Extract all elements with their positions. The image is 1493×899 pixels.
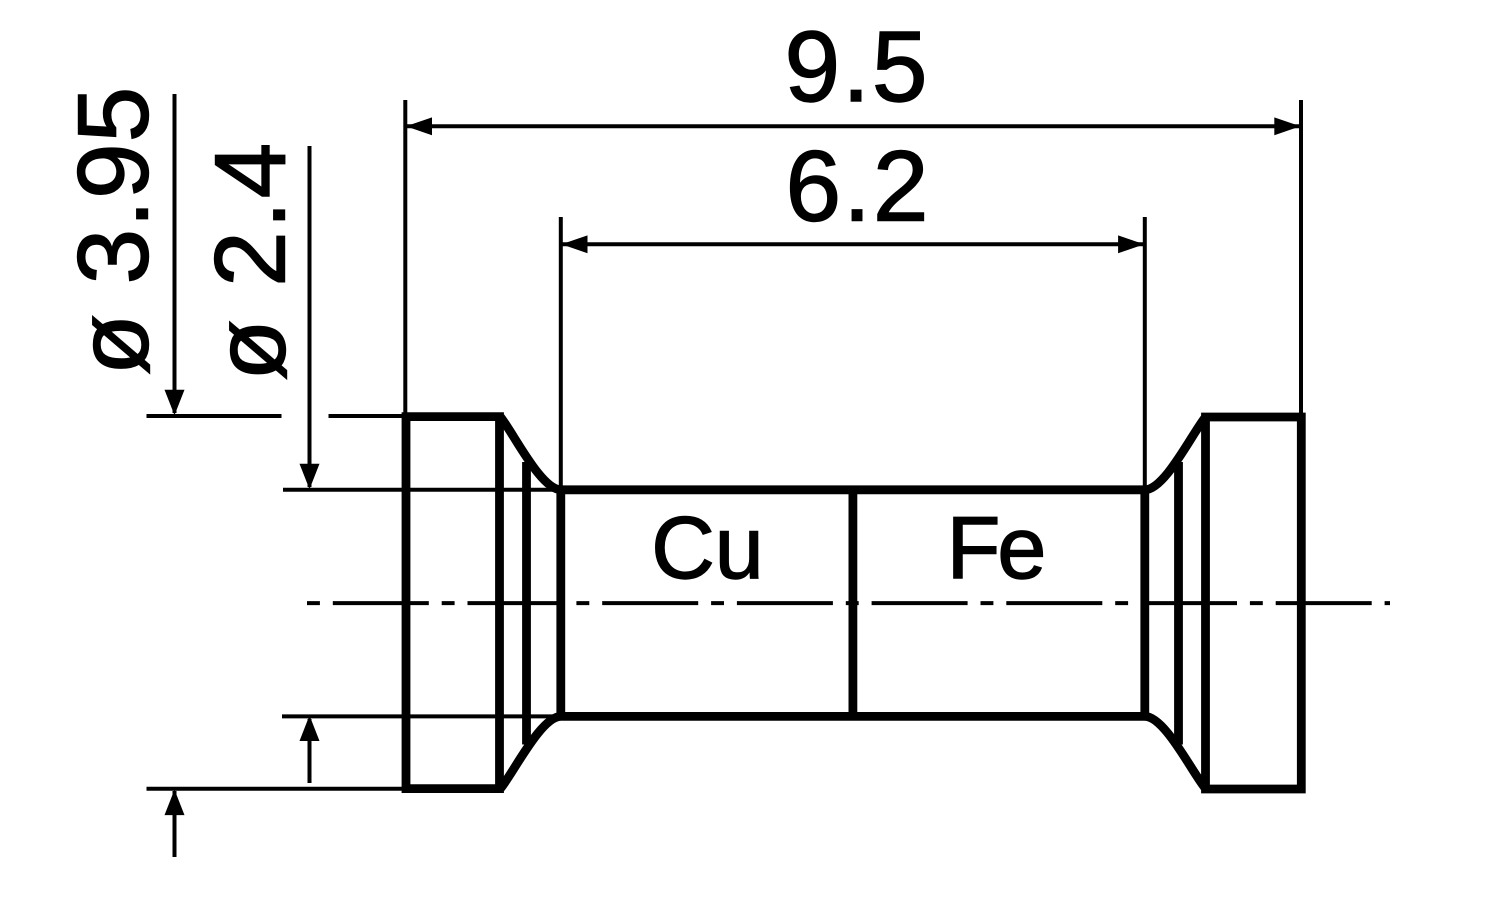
left cone silhouette bottom	[501, 716, 562, 788]
centerline (dash-dot axis)	[307, 601, 1390, 605]
svg-text:ø 3.95: ø 3.95	[58, 86, 170, 376]
dimension line 6.2	[561, 242, 1145, 246]
dimension line 9.5	[405, 124, 1301, 128]
right cone edge line	[1174, 462, 1183, 745]
svg-text:6.2: 6.2	[785, 131, 930, 243]
dia 3.95 arrowhead lower (points up)	[165, 790, 185, 816]
extension line left of 9.5	[403, 100, 407, 417]
left cone edge line	[522, 462, 531, 745]
dia 3.95 extension tick top (broken around dia2.4 line)	[147, 414, 408, 418]
dia 2.4 extension tick top	[283, 488, 561, 492]
svg-text:ø 2.4: ø 2.4	[195, 140, 307, 380]
arrowhead right 9.5	[1274, 117, 1300, 135]
shaft top edge	[561, 485, 1145, 494]
dia 2.4 dimension line upper segment	[308, 146, 312, 487]
dia 2.4 extension tick bottom	[282, 714, 561, 718]
arrowhead left 6.2	[562, 235, 588, 253]
arrowhead right 6.2	[1118, 235, 1144, 253]
arrowhead left 9.5	[406, 117, 432, 135]
extension line right of 9.5	[1299, 100, 1303, 417]
right cone silhouette top	[1145, 417, 1206, 490]
shaft bottom edge	[561, 712, 1145, 721]
dia 3.95 extension tick bottom	[147, 787, 408, 791]
svg-text:Cu: Cu	[651, 498, 764, 597]
left flange outline	[406, 417, 500, 789]
extension line left of 6.2	[559, 217, 563, 490]
left gauge boundary	[556, 490, 565, 717]
dia 2.4 arrowhead lower (points up)	[300, 715, 320, 741]
svg-text:9.5: 9.5	[784, 11, 929, 123]
right flange outline	[1206, 417, 1302, 789]
right gauge boundary	[1140, 490, 1149, 717]
right cone silhouette bottom	[1145, 716, 1206, 788]
dia 3.95 dimension line lower segment	[173, 791, 177, 857]
dia 3.95 dimension line upper segment	[173, 94, 177, 413]
dia 2.4 dimension line lower segment	[308, 719, 312, 783]
left cone silhouette top	[501, 417, 562, 490]
Cu/Fe divider	[849, 490, 858, 717]
dia 2.4 arrowhead upper (points down)	[300, 464, 320, 490]
dia 3.95 arrowhead upper (points down)	[165, 390, 185, 416]
extension line right of 6.2	[1143, 217, 1147, 490]
svg-text:Fe: Fe	[947, 498, 1044, 597]
